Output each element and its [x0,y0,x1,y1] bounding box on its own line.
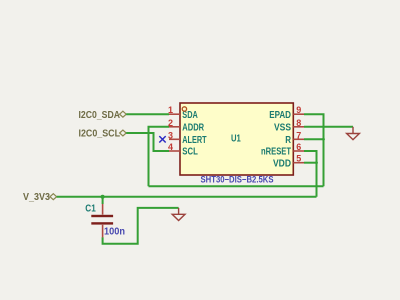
svg-text:U1: U1 [231,133,241,144]
svg-text:100n: 100n [104,226,125,237]
svg-text:SHT30−DIS−B2.5KS: SHT30−DIS−B2.5KS [201,175,274,185]
svg-text:1: 1 [168,105,173,115]
pin 2 ADDR [168,118,205,134]
svg-text:ADDR: ADDR [182,123,204,134]
hierarchical label I2C0_SDA [79,110,127,121]
ground near C1 [172,208,185,221]
junction R net [322,138,325,141]
wire VDD to vertical [304,162,317,164]
svg-text:9: 9 [296,105,301,115]
svg-text:SCL: SCL [182,147,198,158]
pin 6 nRESET [261,142,304,158]
capacitor C1 [91,204,113,237]
power label V_3V3 [23,192,57,203]
svg-text:V_3V3: V_3V3 [23,192,50,203]
svg-text:VSS: VSS [274,123,291,134]
wire C1 bottom to ground [103,208,179,244]
wire R to vertical [304,138,324,140]
pin 7 R [285,130,304,146]
wire net line ADDR-EPAD-R horizontal [149,185,324,187]
IC U1 body [180,103,293,175]
pin 4 SCL [168,142,198,158]
wire SDA label to pin 1 [126,113,169,115]
svg-text:C1: C1 [85,203,96,214]
svg-text:nRESET: nRESET [261,147,291,158]
wire vertical EPAD-R [304,114,324,186]
svg-text:EPAD: EPAD [269,110,291,121]
svg-text:R: R [285,135,291,146]
pin 9 EPAD [269,105,304,121]
pin 3 ALERT [168,130,207,146]
ground at VSS [347,127,360,140]
wire V_3V3 rail [57,196,317,198]
svg-text:4: 4 [168,142,173,152]
wire ADDR to net line [149,127,170,186]
junction VDD net [315,161,318,164]
svg-text:8: 8 [296,118,301,128]
no-connect flag ALERT [159,136,165,142]
wire VSS to ground [304,126,353,128]
wire nRESET down to rail [304,151,317,197]
svg-text:7: 7 [296,130,301,140]
svg-text:ALERT: ALERT [182,135,206,146]
svg-text:5: 5 [296,154,301,164]
junction C1 tap [101,195,105,199]
svg-text:I2C0_SDA: I2C0_SDA [79,110,121,121]
svg-text:I2C0_SCL: I2C0_SCL [79,129,121,140]
svg-text:VDD: VDD [273,158,291,169]
svg-text:6: 6 [296,142,301,152]
pin 8 VSS [274,118,304,134]
pin 5 VDD [273,154,304,170]
hierarchical label I2C0_SCL [79,129,127,140]
wire SCL label to pin 4 [126,133,169,151]
wire rail to C1 [102,197,104,204]
pin 1 SDA [168,105,198,121]
svg-text:3: 3 [168,130,173,140]
svg-text:2: 2 [168,118,173,128]
